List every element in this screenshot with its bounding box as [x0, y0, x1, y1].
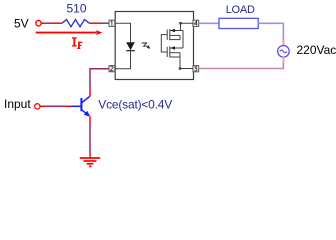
svg-text:Vce(sat)<0.4V: Vce(sat)<0.4V	[98, 98, 172, 112]
light emission arrow	[142, 43, 149, 47]
optocoupler U1 body	[115, 12, 193, 80]
wire pin1 internal lead	[115, 23, 130, 42]
svg-text:LOAD: LOAD	[226, 4, 255, 16]
transistor Q1 collector pin red	[89, 88, 91, 96]
wire gate rail	[161, 35, 167, 52]
resistor R1 right pin	[89, 22, 100, 24]
svg-text:Input: Input	[4, 97, 31, 111]
wire AC to pin3 pink	[199, 63, 284, 69]
pin 4 square	[193, 20, 199, 26]
transistor Q1 NPN	[72, 96, 91, 115]
wire pin4 to LOAD blue	[199, 22, 219, 24]
pin 1 square	[109, 20, 115, 26]
node junction at pin4 lead	[179, 22, 182, 25]
resistor LOAD box	[219, 18, 258, 28]
wire pin4 internal lead	[181, 23, 194, 30]
label IF	[72, 37, 82, 49]
wire pin2 to collector maroon	[90, 69, 109, 89]
wire 5V stub red	[42, 22, 46, 24]
pin 3 square	[193, 66, 199, 72]
svg-text:5V: 5V	[14, 17, 29, 31]
resistor R1 zigzag 510	[62, 20, 89, 27]
wire ground stub red	[89, 151, 91, 157]
wire AC bottom stub	[282, 57, 284, 63]
wire input maroon	[46, 105, 66, 107]
wire drain tie rail	[182, 31, 184, 49]
transistor Q1 emitter pin red	[89, 116, 91, 123]
arrow IF current	[36, 32, 96, 34]
node Input port circle	[35, 104, 40, 109]
wire to pin1 maroon	[100, 22, 109, 24]
wire input stub red	[41, 105, 46, 107]
wire LED cathode to pin2	[115, 51, 130, 69]
wire LOAD to corner blue	[258, 23, 283, 40]
resistor R1 left pin	[54, 22, 63, 24]
wire emitter to ground maroon	[89, 123, 91, 151]
transistor M1 photoMOS top	[167, 29, 183, 40]
pin 2 square	[109, 66, 115, 72]
node 5V port circle	[36, 21, 41, 26]
wire source to pin3	[180, 57, 194, 69]
node junction at pin3 lead	[179, 67, 182, 70]
svg-text:510: 510	[67, 2, 87, 16]
transistor M2 photoMOS bottom	[167, 46, 183, 57]
source V1 AC	[278, 46, 290, 58]
wire 5V maroon	[45, 22, 53, 24]
transistor Q1 base pin red	[66, 105, 72, 107]
LED D1	[126, 42, 135, 50]
wire AC top stub	[282, 40, 284, 46]
svg-text:220Vac: 220Vac	[297, 43, 336, 57]
ground	[80, 158, 100, 166]
